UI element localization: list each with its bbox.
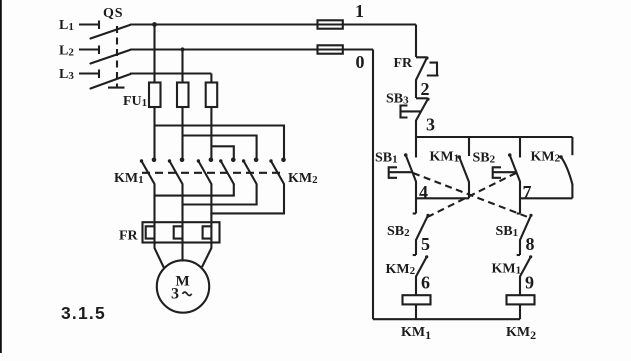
label SB2 (start) bbox=[473, 150, 496, 165]
wire FR to motor W bbox=[202, 243, 211, 267]
svg-text:0: 0 bbox=[356, 52, 365, 72]
svg-text:L1: L1 bbox=[59, 18, 74, 33]
wire L3 lead bbox=[79, 70, 99, 79]
svg-text:KM2: KM2 bbox=[386, 262, 416, 277]
wire node 8 bbox=[519, 240, 521, 255]
wire node 4 tie bbox=[416, 182, 469, 214]
fuse FU (line 0) bbox=[318, 45, 343, 53]
label SB2 (NC of start 2) bbox=[387, 224, 410, 239]
wire phase A below fuse bbox=[153, 107, 155, 158]
wire L3 to phase C drop bbox=[130, 72, 211, 74]
label FU1 bbox=[123, 94, 147, 109]
dashed interlock bar (main contacts) bbox=[142, 172, 283, 174]
label KM1 (interlock NC) bbox=[492, 262, 522, 277]
svg-text:KM1: KM1 bbox=[401, 325, 431, 342]
label SB1 (start) bbox=[375, 150, 398, 165]
contact KM2 main pole 5 bbox=[242, 158, 258, 185]
contact KM1 main pole 3 bbox=[197, 158, 214, 185]
wire line 1 into FR contact bbox=[415, 25, 417, 58]
svg-text:L3: L3 bbox=[59, 67, 74, 82]
pushbutton SB2 NC contact bbox=[413, 214, 430, 241]
coil KM2 bbox=[507, 295, 535, 304]
wire bottom return bus bbox=[373, 318, 520, 320]
wire phase B vertical bbox=[181, 50, 183, 84]
svg-text:3: 3 bbox=[171, 286, 179, 303]
wire phase B below fuse bbox=[181, 107, 183, 158]
label node 8 bbox=[526, 234, 535, 254]
svg-text:6: 6 bbox=[421, 273, 430, 293]
wire node 7 tie bbox=[520, 182, 572, 214]
wire node 5 bbox=[415, 240, 417, 255]
wire drop to SB2 bbox=[519, 137, 521, 158]
heater element phase A bbox=[146, 221, 155, 243]
label node 6 bbox=[421, 273, 430, 293]
svg-text:KM1: KM1 bbox=[492, 262, 522, 277]
pushbutton SB2 (start, NO) bbox=[493, 153, 520, 181]
heater element phase B bbox=[174, 221, 183, 243]
label node 3 bbox=[426, 115, 435, 135]
svg-text:KM2: KM2 bbox=[506, 325, 536, 342]
svg-text:L2: L2 bbox=[59, 44, 74, 59]
svg-text:SB2: SB2 bbox=[473, 150, 496, 165]
svg-text:8: 8 bbox=[526, 234, 535, 254]
wire drop to KM1 aux bbox=[468, 137, 470, 156]
wire FR to motor V bbox=[181, 243, 183, 261]
wire phase B to KM2 pole 5 bbox=[183, 136, 257, 159]
svg-text:FR: FR bbox=[119, 229, 139, 244]
label SB1 (NC of start 1) bbox=[496, 224, 519, 239]
label L2 bbox=[59, 44, 74, 59]
svg-text:5: 5 bbox=[421, 234, 430, 254]
fuse FU1-c bbox=[206, 83, 218, 108]
contact KM1 aux NO bbox=[457, 155, 469, 198]
switch QS pole 2 blade bbox=[91, 50, 131, 64]
svg-text:FU1: FU1 bbox=[123, 94, 147, 109]
svg-text:SB1: SB1 bbox=[496, 224, 519, 239]
thermal relay FR NC contact bbox=[416, 56, 439, 80]
wire line 1 bus (L1 to control fuse) bbox=[130, 23, 416, 25]
svg-text:FR: FR bbox=[394, 56, 414, 71]
contact KM2 NC interlock bbox=[413, 255, 429, 277]
wire line 0 bus (L2 to control fuse) bbox=[130, 48, 373, 50]
label node 9 bbox=[525, 273, 534, 293]
label 0 bbox=[356, 52, 365, 72]
label node 4 bbox=[419, 182, 428, 202]
svg-text:SB1: SB1 bbox=[375, 150, 398, 165]
fuse FU1-b bbox=[177, 83, 189, 108]
wire control rail 0 (left rail down) bbox=[372, 50, 374, 320]
dashed link SB1 to SB1 NC bbox=[413, 173, 529, 218]
wire L1 lead bbox=[79, 21, 99, 30]
contact KM1 main pole 1 bbox=[140, 158, 157, 185]
wire coil KM1 to bus bbox=[415, 305, 417, 319]
label FR (overload heaters) bbox=[119, 229, 139, 244]
switch QS pole 3 blade bbox=[91, 74, 131, 89]
svg-text:KM1: KM1 bbox=[430, 150, 460, 165]
fuse FU1-a bbox=[149, 83, 161, 108]
switch QS pole 1 blade bbox=[91, 25, 131, 39]
svg-text:KM1: KM1 bbox=[114, 171, 144, 186]
contact KM1 main pole 2 bbox=[168, 158, 185, 185]
wire L2 lead bbox=[79, 46, 99, 55]
node junction phase B bbox=[180, 47, 184, 51]
wire FR to SB3 bbox=[415, 80, 417, 98]
label KM1 (self-hold aux) bbox=[430, 150, 460, 165]
label FR (control contact) bbox=[394, 56, 414, 71]
wire phase A to FR bbox=[153, 196, 155, 222]
svg-text:KM2: KM2 bbox=[288, 171, 318, 186]
wire drop to KM2 aux bbox=[571, 137, 573, 155]
fuse FU (line 1) bbox=[318, 20, 343, 28]
wire node 9 to coil bbox=[519, 277, 521, 295]
wire coil KM2 to bus bbox=[519, 305, 521, 319]
wire phase C to KM2 pole 4 bbox=[211, 146, 233, 158]
contact KM2 aux NO bbox=[559, 155, 572, 198]
label KM2 (interlock NC) bbox=[386, 262, 416, 277]
svg-text:9: 9 bbox=[525, 273, 534, 293]
svg-text:3: 3 bbox=[426, 115, 435, 135]
pushbutton SB1 (start, NO) bbox=[389, 153, 416, 181]
label QS bbox=[103, 6, 123, 21]
label KM1 (main contacts) bbox=[114, 171, 144, 186]
wire phase C below fuse bbox=[210, 107, 212, 158]
svg-text:2: 2 bbox=[421, 79, 430, 99]
label KM2 (main contacts) bbox=[288, 171, 318, 186]
label KM2 (coil) bbox=[506, 325, 536, 342]
contact KM1 NC interlock bbox=[517, 255, 533, 277]
figure number 3.1.5 bbox=[61, 303, 106, 323]
node junction phase A bbox=[152, 22, 157, 27]
pushbutton SB3 (stop, NC) bbox=[401, 98, 430, 121]
label node 5 bbox=[421, 234, 430, 254]
label L3 bbox=[59, 67, 74, 82]
svg-text:QS: QS bbox=[103, 6, 123, 21]
dashed link SB2 to SB2 NC bbox=[427, 173, 517, 218]
svg-text:SB2: SB2 bbox=[387, 224, 410, 239]
svg-text:3.1.5: 3.1.5 bbox=[61, 303, 106, 323]
wire phase C vertical bbox=[210, 74, 212, 84]
wire SB3 to branch bus bbox=[415, 121, 417, 158]
wire control branch top bus bbox=[416, 136, 572, 138]
wire phase A vertical bbox=[153, 25, 155, 84]
wire pole3 to pole6 bottom bbox=[211, 184, 284, 213]
label 1 bbox=[355, 1, 364, 21]
svg-text:KM2: KM2 bbox=[531, 150, 561, 165]
label L1 bbox=[59, 18, 74, 33]
wire phase B to FR bbox=[181, 205, 183, 222]
label node 2 bbox=[421, 79, 430, 99]
wire node 6 to coil bbox=[415, 277, 417, 295]
wire FR to motor U bbox=[155, 243, 164, 267]
wire phase A to KM2 pole 6 bbox=[155, 126, 285, 159]
thermal relay FR heater box bbox=[143, 222, 220, 242]
switch QS linkage dashed bar bbox=[108, 26, 125, 88]
label KM2 (self-hold aux) bbox=[531, 150, 561, 165]
motor M 3~ bbox=[157, 260, 209, 312]
contact KM2 main pole 4 bbox=[219, 158, 236, 185]
svg-text:1: 1 bbox=[355, 1, 364, 21]
page left edge scan line (decorative) bbox=[0, 0, 2, 353]
pushbutton SB1 NC contact bbox=[517, 214, 533, 241]
svg-text:SB3: SB3 bbox=[386, 92, 409, 107]
wire pole2 to pole5 bottom bbox=[183, 184, 257, 205]
heater element phase C bbox=[203, 221, 212, 243]
wire phase C to FR bbox=[210, 213, 212, 221]
label node 7 bbox=[523, 182, 532, 202]
contact KM2 main pole 6 bbox=[269, 158, 286, 185]
coil KM1 bbox=[403, 295, 431, 304]
wire pole1 to pole4 bottom bbox=[155, 184, 234, 196]
label SB3 bbox=[386, 92, 409, 107]
label KM1 (coil) bbox=[401, 325, 431, 342]
